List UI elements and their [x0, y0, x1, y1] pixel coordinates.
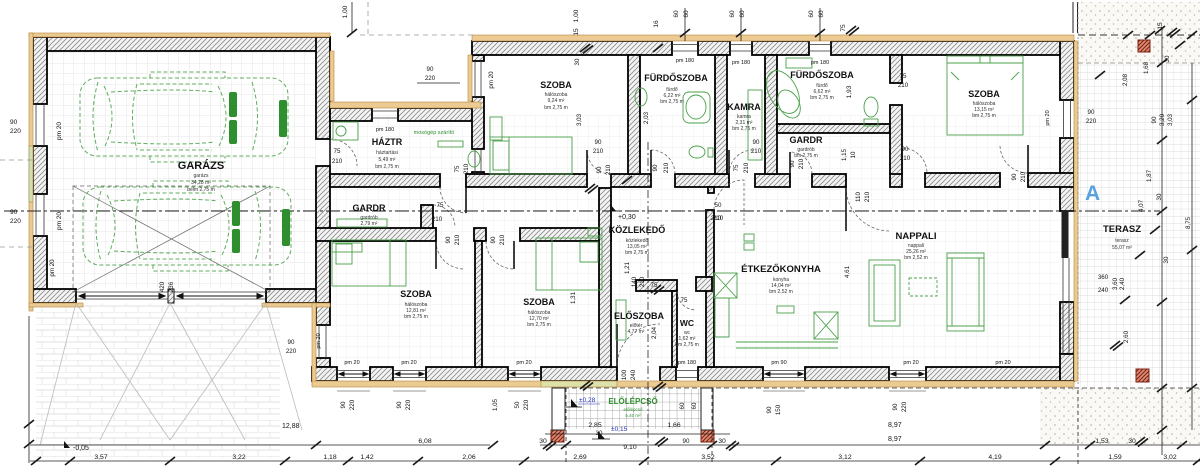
svg-text:220: 220	[286, 348, 297, 355]
svg-text:30: 30	[1163, 256, 1170, 263]
svg-text:1,93: 1,93	[846, 85, 853, 98]
window: notch haztr window	[372, 111, 398, 118]
wall V5a: szoba/furdo1	[628, 55, 640, 174]
svg-text:34,28 m²: 34,28 m²	[191, 180, 211, 186]
garage floor grid	[47, 51, 316, 289]
wall: wc north wall	[636, 280, 677, 291]
door arc: szoba right door1	[902, 148, 927, 173]
porch cheek wall left	[552, 388, 565, 430]
svg-text:±0,28: ±0,28	[579, 397, 596, 404]
bottom-right stipple area	[1040, 388, 1200, 445]
svg-text:30: 30	[539, 438, 547, 445]
svg-text:1,66: 1,66	[667, 422, 680, 429]
svg-text:pm 20: pm 20	[316, 333, 322, 348]
svg-text:240: 240	[630, 369, 637, 380]
svg-text:90: 90	[652, 164, 659, 171]
svg-text:bm 2,75 m: bm 2,75 m	[527, 322, 551, 328]
furdo2 basin	[786, 58, 812, 68]
svg-text:1,68: 1,68	[1143, 61, 1150, 74]
svg-text:terasz: terasz	[1115, 238, 1129, 244]
svg-text:240: 240	[1098, 287, 1109, 294]
svg-text:bm 2,75 m: bm 2,75 m	[404, 314, 428, 320]
svg-text:pm 180: pm 180	[732, 60, 750, 66]
window: szoba1 west window	[319, 325, 326, 358]
haztr appliances	[333, 122, 358, 140]
gardr wardrobe	[337, 219, 387, 227]
trim: notch wall top face	[330, 102, 481, 108]
svg-text:pm 180: pm 180	[676, 58, 694, 64]
furdo2 shower	[760, 65, 806, 119]
window: szoba bottom-left window 1	[337, 371, 370, 378]
extension lines bottom	[566, 388, 712, 465]
svg-text:210: 210	[432, 216, 443, 223]
svg-text:90: 90	[288, 339, 295, 346]
svg-text:bm 2,75 m: bm 2,75 m	[794, 153, 818, 159]
svg-text:12,88: 12,88	[282, 423, 300, 430]
right vertical dim line 1	[1161, 28, 1163, 455]
window: nappali bottom window	[889, 371, 926, 378]
svg-text:bm 2,75 m: bm 2,75 m	[810, 95, 834, 101]
window: terasz sliding door	[1063, 211, 1069, 354]
wall: house left below window	[316, 358, 330, 367]
svg-text:220: 220	[10, 128, 21, 135]
svg-text:háztartási: háztartási	[376, 150, 398, 156]
svg-text:4,77 m²: 4,77 m²	[628, 329, 645, 335]
wall: szoba top-right bottom wall	[890, 173, 902, 187]
ticks right lines	[1157, 59, 1167, 67]
terasz upper stipple band	[1078, 2, 1200, 63]
terasz slider leaf	[1062, 211, 1069, 258]
wall V6: gardr2/szoba-right upper	[890, 55, 902, 83]
svg-text:90: 90	[427, 66, 434, 73]
svg-text:FÜRDŐSZOBA: FÜRDŐSZOBA	[790, 69, 854, 80]
szoba bottom-left bed	[332, 240, 406, 286]
svg-text:3,22: 3,22	[232, 454, 245, 461]
dashed margin lines left	[0, 160, 33, 247]
svg-text:90: 90	[445, 236, 452, 243]
red column porch left	[551, 430, 564, 442]
svg-text:210: 210	[593, 148, 604, 155]
porch bottom dim line	[545, 433, 730, 435]
front line dashed through stipple	[1078, 34, 1200, 36]
window: wc bottom window	[676, 371, 698, 378]
svg-text:pm 20: pm 20	[995, 360, 1010, 366]
svg-text:15: 15	[573, 28, 580, 36]
svg-text:bm 2,75 m: bm 2,75 m	[675, 342, 699, 348]
wall V2: szoba divider	[475, 241, 482, 367]
svg-text:pm 180: pm 180	[376, 127, 394, 133]
bottom chain line upper	[30, 444, 1200, 446]
wall: house right mid	[1060, 138, 1074, 211]
svg-text:KAMRA: KAMRA	[727, 102, 761, 112]
door arc: furdo1 door	[651, 150, 675, 174]
svg-text:1,42: 1,42	[360, 454, 373, 461]
wall V3: szoba2 east wall	[599, 188, 611, 367]
svg-text:GARDR: GARDR	[353, 203, 386, 213]
dashed building front line	[360, 34, 474, 36]
svg-text:75: 75	[651, 282, 658, 289]
svg-text:90: 90	[753, 139, 760, 146]
svg-text:bm 2,75 m: bm 2,75 m	[625, 250, 649, 256]
trim: szoba west wall at notch	[468, 55, 472, 101]
svg-text:bm 2,75 m: bm 2,75 m	[972, 113, 996, 119]
svg-text:210: 210	[798, 158, 805, 169]
svg-text:1,31: 1,31	[570, 291, 577, 304]
svg-text:1,00: 1,00	[342, 5, 349, 18]
svg-text:60: 60	[818, 10, 825, 18]
svg-text:75: 75	[840, 24, 847, 32]
svg-text:75: 75	[733, 164, 740, 171]
wall: notch front wall left	[330, 108, 372, 121]
porch cheek wall right	[701, 388, 713, 430]
door arc: szoba2 door	[486, 241, 514, 269]
svg-text:KÖZLEKEDŐ: KÖZLEKEDŐ	[609, 224, 666, 235]
svg-text:220: 220	[523, 399, 530, 410]
trim: garage bottom-right outside	[262, 303, 330, 307]
svg-text:30: 30	[1164, 55, 1171, 62]
trim: pale green strip near entry	[541, 381, 617, 387]
svg-text:bm 2,75 m: bm 2,75 m	[660, 99, 684, 105]
svg-text:bm 2,75 m: bm 2,75 m	[375, 164, 399, 170]
svg-text:220: 220	[405, 399, 412, 410]
svg-text:5,40 m²: 5,40 m²	[625, 413, 641, 418]
svg-text:220: 220	[10, 218, 21, 225]
bottom chain line lower	[30, 460, 1200, 462]
window: garage left 2	[36, 194, 44, 236]
svg-text:220: 220	[901, 401, 908, 412]
svg-text:75: 75	[454, 165, 461, 172]
furdo2 toilet	[864, 97, 878, 117]
nappali table	[909, 278, 937, 296]
furdo1 basin	[635, 88, 647, 106]
garage door sills	[76, 292, 266, 299]
dimension numbers bottom lower chain	[94, 422, 1176, 461]
svg-text:1,18: 1,18	[323, 454, 336, 461]
wall: house bottom segments	[312, 367, 337, 381]
window: garage left 1	[36, 104, 44, 146]
wall: garage left lower	[33, 236, 47, 303]
door arc: kamra door	[729, 150, 753, 174]
svg-text:60: 60	[808, 10, 815, 18]
svg-text:2,79 m²: 2,79 m²	[361, 221, 378, 227]
window: kamra top window	[730, 45, 752, 52]
szoba top-left bed	[490, 137, 572, 174]
trim: garage left outside	[29, 33, 33, 311]
left margin window labels	[10, 119, 63, 230]
nappali sofa left	[869, 260, 900, 326]
trim: garage bottom-left outside	[29, 303, 83, 307]
window: szoba-right east window	[1064, 100, 1071, 138]
svg-text:2,04: 2,04	[651, 326, 658, 339]
svg-text:60: 60	[679, 402, 686, 409]
wall V5b: furdo1/kamra	[715, 55, 727, 174]
window: konyha bottom window	[763, 371, 805, 378]
wall: garage left middle	[33, 146, 47, 194]
wall: eloszoba-wc divider	[672, 291, 677, 367]
svg-text:5,49 m²: 5,49 m²	[379, 157, 396, 163]
svg-text:3,57: 3,57	[94, 454, 107, 461]
svg-text:pm 20: pm 20	[56, 122, 63, 140]
svg-text:SZOBA: SZOBA	[540, 80, 572, 90]
wall V5c: kamra/gardr2	[765, 55, 777, 174]
svg-text:GARÁZS: GARÁZS	[178, 159, 224, 172]
svg-text:236: 236	[168, 281, 175, 292]
kamra shelves	[748, 90, 762, 160]
car 2 in garage	[83, 181, 291, 271]
trim: house top outside	[472, 35, 1074, 41]
svg-text:210: 210	[743, 162, 750, 173]
svg-text:pm 20: pm 20	[1045, 110, 1051, 125]
svg-text:4,61: 4,61	[844, 265, 851, 278]
wall: garage right lower	[316, 166, 330, 303]
svg-text:mosógép szárító: mosógép szárító	[414, 130, 455, 136]
door arc: wc door	[677, 291, 696, 310]
svg-text:2,06: 2,06	[462, 454, 475, 461]
svg-text:bm 2,52 m: bm 2,52 m	[769, 289, 793, 295]
svg-text:pm 20: pm 20	[516, 360, 531, 366]
svg-text:bm 2,52 m: bm 2,52 m	[904, 255, 928, 261]
garage parking space 2 dashed box with X	[73, 186, 270, 292]
wall V1: gardr east wall	[421, 205, 433, 228]
window: szoba bottom-mid window	[508, 371, 541, 378]
ticks top	[347, 29, 357, 37]
wall: house right upper	[1060, 41, 1074, 100]
wall: house top, segment 1	[472, 41, 672, 55]
svg-text:90: 90	[10, 119, 18, 126]
svg-text:90: 90	[683, 438, 690, 445]
svg-text:4,19: 4,19	[988, 454, 1001, 461]
driveway splay lines	[40, 303, 302, 445]
svg-text:1,05: 1,05	[492, 398, 499, 411]
svg-text:30: 30	[1156, 193, 1163, 200]
svg-text:60: 60	[739, 10, 746, 18]
ticks on left dim line	[24, 420, 34, 428]
svg-text:90: 90	[396, 401, 403, 408]
porch grid (elolepcso)	[565, 389, 701, 429]
svg-text:10: 10	[850, 151, 857, 158]
svg-text:1,87: 1,87	[1146, 169, 1153, 182]
parapet labels	[344, 58, 1010, 366]
svg-text:3,20: 3,20	[1159, 113, 1166, 126]
svg-text:210: 210	[898, 82, 909, 89]
car 1 in garage	[80, 72, 288, 162]
svg-text:ÉTKEZŐKONYHA: ÉTKEZŐKONYHA	[741, 263, 821, 275]
svg-text:220: 220	[1086, 118, 1097, 125]
svg-text:210: 210	[605, 164, 612, 175]
svg-text:50: 50	[715, 202, 722, 209]
window: szoba top-left west window	[475, 61, 481, 97]
svg-text:pm 90: pm 90	[771, 360, 786, 366]
svg-text:3,03: 3,03	[1167, 113, 1174, 126]
svg-text:15: 15	[1157, 22, 1164, 30]
svg-text:140: 140	[631, 276, 638, 287]
wall V4 stub	[708, 187, 714, 193]
niche lines szoba west wall	[475, 149, 481, 172]
top margin rotated labels	[342, 5, 1164, 98]
top dim stub	[351, 2, 353, 33]
door arc: szoba1 door	[436, 241, 464, 269]
level marks and misc texts	[64, 182, 1100, 452]
svg-text:ELŐLÉPCSŐ: ELŐLÉPCSŐ	[608, 397, 657, 406]
wall: house left below garage	[316, 303, 330, 325]
svg-text:TERASZ: TERASZ	[1103, 224, 1141, 235]
svg-text:8,97: 8,97	[888, 422, 902, 429]
trim: house right outside	[1074, 41, 1078, 381]
szoba bottom-mid bed	[536, 238, 602, 290]
svg-text:2,40: 2,40	[1119, 277, 1126, 290]
svg-text:HÁZTR: HÁZTR	[372, 137, 403, 147]
trim: house west face below garage	[312, 303, 316, 385]
dimension ticks bottom upper chain	[311, 437, 1187, 451]
svg-text:210: 210	[332, 158, 343, 165]
svg-text:SZOBA: SZOBA	[968, 89, 1000, 99]
house interior faint grid	[330, 115, 1060, 367]
furdo1 toilet	[689, 146, 705, 158]
trim: green insulation strip left	[29, 146, 33, 202]
terasz fine grid	[1078, 63, 1200, 388]
svg-text:90: 90	[596, 166, 603, 173]
svg-text:±0,15: ±0,15	[611, 426, 628, 433]
top window centerlines	[685, 8, 820, 41]
svg-text:90: 90	[1088, 109, 1095, 116]
trim: garage top outside	[29, 33, 330, 37]
svg-text:1,53: 1,53	[1095, 438, 1108, 445]
svg-text:NAPPALI: NAPPALI	[896, 231, 937, 242]
svg-text:30: 30	[596, 430, 603, 437]
svg-text:4,07: 4,07	[1138, 199, 1145, 212]
dimension ticks bottom lower chain	[31, 457, 1200, 465]
svg-text:3,60: 3,60	[1112, 277, 1119, 290]
svg-text:bm 2,75 m: bm 2,75 m	[544, 105, 568, 111]
wall: garage left upper	[33, 37, 47, 104]
door arc: entry door	[617, 324, 660, 367]
svg-text:pm 20: pm 20	[488, 71, 495, 89]
red column terasz top	[1138, 40, 1150, 52]
svg-text:3,03: 3,03	[576, 113, 583, 126]
wall V4: kitchen west wall	[706, 210, 714, 367]
svg-text:pm 20: pm 20	[903, 360, 918, 366]
svg-text:210: 210	[454, 234, 461, 245]
svg-text:SZOBA: SZOBA	[400, 289, 432, 299]
svg-text:90: 90	[1011, 173, 1018, 180]
wall I1: corridor north wall segments	[330, 174, 440, 187]
svg-text:30: 30	[1128, 438, 1136, 445]
svg-text:60: 60	[683, 10, 690, 18]
svg-text:50: 50	[514, 401, 521, 408]
svg-text:110: 110	[855, 192, 862, 202]
svg-text:60: 60	[691, 402, 698, 409]
svg-text:360: 360	[1098, 274, 1109, 281]
svg-text:90: 90	[340, 401, 347, 408]
svg-text:90: 90	[766, 406, 773, 413]
section line A-A	[4, 210, 1160, 212]
svg-text:16: 16	[653, 20, 660, 28]
svg-text:60: 60	[729, 10, 736, 18]
svg-text:pm 20: pm 20	[49, 259, 56, 277]
svg-text:210: 210	[499, 234, 506, 245]
svg-text:60: 60	[673, 10, 680, 18]
wall: garage top	[33, 37, 330, 51]
svg-text:100: 100	[621, 369, 628, 380]
svg-text:90: 90	[789, 160, 796, 167]
kitchen counter with X	[714, 273, 737, 298]
window: furdo1 top window	[672, 45, 698, 52]
szoba top-right bed	[947, 56, 1023, 135]
red column terasz bottom	[1136, 369, 1149, 382]
svg-text:GARDR: GARDR	[790, 135, 823, 145]
svg-text:55,07 m²: 55,07 m²	[1112, 245, 1132, 251]
terasz boundary dashes	[1077, 2, 1079, 390]
wall: garage bottom right pillar	[266, 289, 330, 303]
wall: furdo2/gardr2 divider	[777, 124, 890, 133]
window: szoba bottom-left window 2	[393, 371, 426, 378]
svg-text:bm 2,75 m: bm 2,75 m	[732, 126, 756, 132]
svg-text:90: 90	[902, 146, 909, 153]
svg-text:6,08: 6,08	[418, 438, 431, 445]
svg-text:90: 90	[1151, 116, 1158, 123]
svg-text:210: 210	[663, 162, 670, 173]
trim: garage right wall east face at notch	[330, 51, 334, 101]
door arc: nappali 110 door	[846, 187, 890, 231]
wall: house top, segment 3	[752, 41, 809, 55]
wall: house right lower	[1060, 302, 1074, 354]
furdo1 tub	[683, 92, 710, 123]
svg-text:2,08: 2,08	[1122, 73, 1129, 86]
svg-text:-0,05: -0,05	[73, 445, 89, 452]
svg-text:belm 2,75 m: belm 2,75 m	[187, 187, 215, 193]
svg-text:WC: WC	[680, 318, 694, 328]
svg-text:8,75: 8,75	[1185, 216, 1192, 229]
svg-text:pm 20: pm 20	[56, 212, 63, 230]
svg-text:75: 75	[681, 297, 688, 304]
svg-text:3,02: 3,02	[1163, 454, 1176, 461]
svg-text:75: 75	[437, 202, 444, 209]
svg-text:210: 210	[900, 155, 911, 162]
svg-text:210: 210	[639, 276, 646, 287]
svg-text:1,15: 1,15	[841, 148, 848, 161]
wall I2: bottom szoba north wall segments	[316, 228, 436, 241]
svg-text:ELŐSZOBA: ELŐSZOBA	[614, 310, 665, 321]
svg-text:210: 210	[864, 191, 871, 202]
door arc: haztr door	[440, 187, 466, 213]
svg-text:pm 180: pm 180	[811, 60, 829, 66]
wall V6: gardr2/szoba-right lower	[890, 105, 902, 174]
svg-text:75: 75	[900, 73, 907, 80]
door arc: garage to haztr	[330, 139, 357, 166]
svg-text:3,52: 3,52	[701, 454, 714, 461]
svg-text:8,97: 8,97	[888, 436, 902, 443]
door arc: kitchen door	[714, 180, 744, 225]
small horizontal labels	[159, 55, 1192, 445]
svg-text:pm 180: pm 180	[678, 360, 696, 366]
svg-text:2,85: 2,85	[588, 422, 601, 429]
svg-text:2,60: 2,60	[1123, 330, 1130, 343]
svg-text:1,00: 1,00	[573, 9, 580, 22]
door arc: gardr2 door	[790, 152, 812, 174]
svg-text:210: 210	[463, 163, 470, 174]
corner extension lines	[1073, 2, 1078, 33]
svg-text:210: 210	[751, 148, 762, 155]
svg-text:garázs: garázs	[193, 173, 209, 179]
svg-text:SZOBA: SZOBA	[523, 297, 555, 307]
nappali sofa right	[947, 253, 984, 331]
svg-text:FÜRDŐSZOBA: FÜRDŐSZOBA	[644, 72, 708, 83]
svg-text:A: A	[1085, 182, 1100, 205]
wall: garage bottom left pillar	[33, 289, 76, 303]
wall: house top, segment 4	[831, 41, 1074, 55]
wall: house top, segment 2	[698, 41, 730, 55]
svg-text:9,10: 9,10	[623, 444, 636, 451]
